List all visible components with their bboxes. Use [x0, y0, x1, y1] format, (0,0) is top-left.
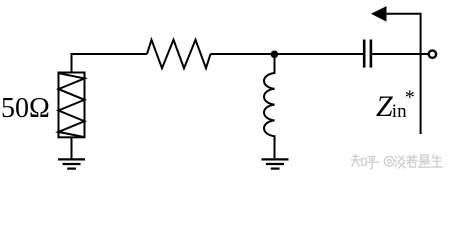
wire capacitor to terminal — [372, 53, 428, 55]
inductor L1 — [264, 54, 275, 158]
wire from R2 to capacitor — [211, 53, 364, 55]
char 若 — [407, 155, 417, 164]
node junction dot — [271, 51, 279, 59]
arrowhead pointing left — [371, 6, 387, 22]
svg-text:50Ω: 50Ω — [1, 93, 50, 124]
svg-text:Z: Z — [376, 90, 393, 123]
wire R1 bottom to ground — [71, 137, 73, 158]
char @ — [384, 157, 394, 167]
watermark 知乎 @淡若是生 — [352, 155, 443, 169]
char 是 — [421, 155, 428, 160]
char 生 — [432, 155, 443, 167]
svg-text:*: * — [405, 87, 415, 109]
resistor R1 zigzag — [59, 73, 85, 137]
resistor R2 zigzag horizontal — [147, 40, 211, 68]
resistor R1 50Ω body — [59, 73, 85, 138]
label Zin* — [376, 87, 415, 124]
char 淡 — [395, 157, 397, 167]
reference plane line with corner — [386, 14, 421, 134]
char 知 — [352, 155, 361, 167]
wire from R1 top to main wire — [72, 54, 148, 73]
open terminal circle — [429, 51, 436, 58]
ground 1 — [58, 159, 85, 168]
ground 2 — [262, 159, 289, 168]
char 乎 — [366, 157, 378, 169]
capacitor C1 plates — [364, 40, 371, 68]
